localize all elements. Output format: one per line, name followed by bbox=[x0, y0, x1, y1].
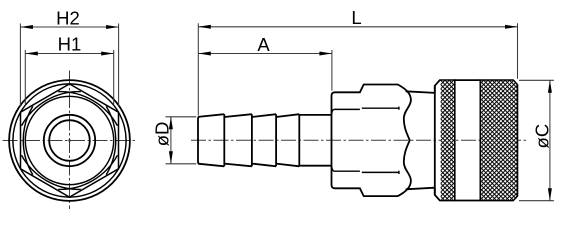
svg-text:H1: H1 bbox=[58, 34, 82, 55]
svg-text:L: L bbox=[351, 7, 361, 28]
svg-text:H2: H2 bbox=[56, 7, 80, 28]
svg-text:øD: øD bbox=[151, 122, 172, 147]
svg-text:øC: øC bbox=[532, 124, 553, 149]
svg-text:A: A bbox=[257, 34, 270, 55]
